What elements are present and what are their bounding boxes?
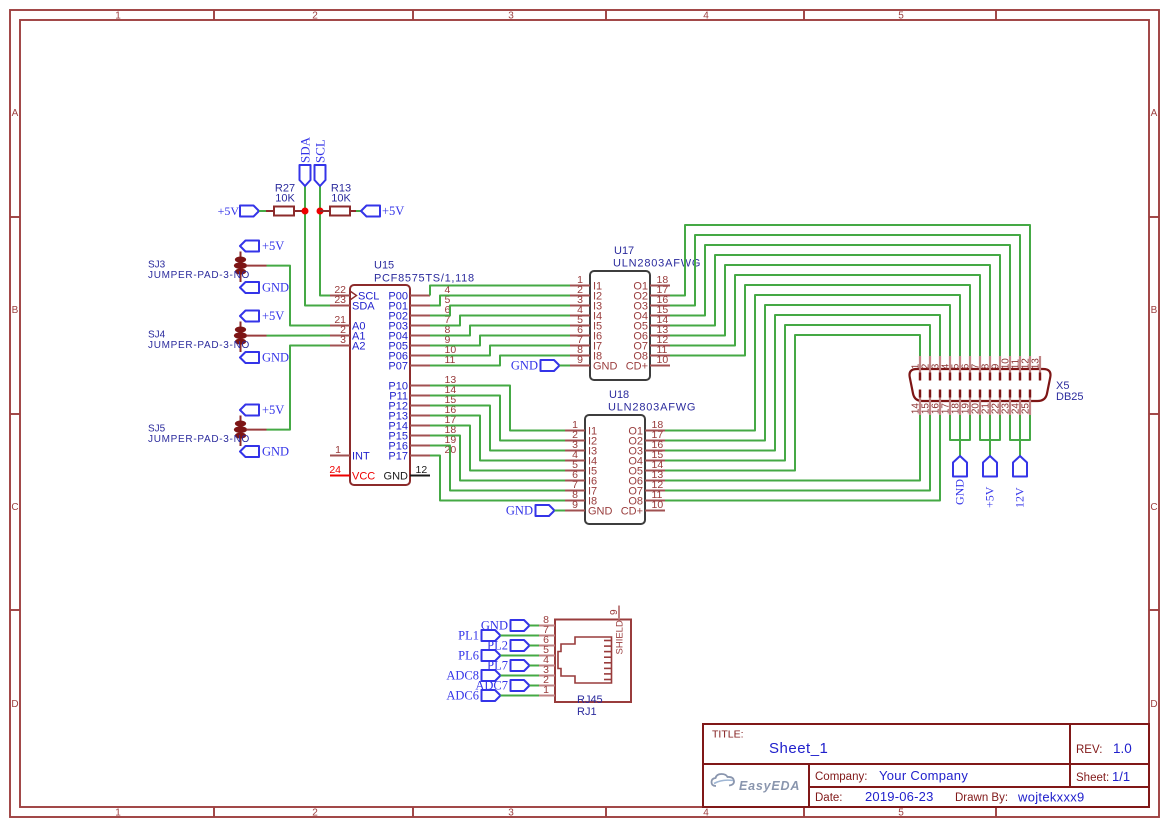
- wire U15 P14 to U18 I5: [430, 426, 565, 471]
- svg-text:1: 1: [543, 684, 549, 696]
- svg-text:SHIELD: SHIELD: [615, 620, 626, 654]
- U18 pin 7 (I7): [565, 479, 597, 498]
- svg-text:23: 23: [334, 294, 346, 306]
- svg-text:SJ4: SJ4: [148, 330, 166, 341]
- svg-text:SJ5: SJ5: [148, 424, 166, 435]
- net port GND of SJ4: [240, 351, 289, 365]
- wire U18 O8 to X5 pin 16: [665, 415, 940, 501]
- svg-text:B: B: [12, 305, 19, 316]
- svg-text:1: 1: [115, 808, 121, 819]
- wire X5 pins 17,18,19 to GND port: [950, 415, 970, 456]
- U15 pin 18 (P15): [388, 424, 456, 443]
- X5 bottom pin 14: [911, 390, 922, 416]
- svg-text:+5V: +5V: [262, 309, 284, 323]
- svg-text:12V: 12V: [1013, 487, 1027, 508]
- svg-text:RJ45: RJ45: [577, 694, 603, 706]
- wire PL6 port to RJ1 pin 5: [501, 655, 540, 657]
- wire U17 O8 to X5 pin 6: [670, 285, 970, 356]
- svg-text:Sheet_1: Sheet_1: [769, 740, 828, 757]
- X5 bottom pin 20: [971, 390, 982, 416]
- wire X5 pins 20,21,22 to +5V port: [980, 415, 1000, 456]
- svg-text:U15: U15: [374, 260, 394, 272]
- U17 pin 4 (I4): [570, 304, 602, 323]
- U18 pin 12 (O7): [628, 479, 665, 498]
- IC U17 body: [590, 271, 650, 380]
- net port GND: [481, 619, 530, 633]
- net port GND below X5: [953, 456, 968, 505]
- X5 top pin 12: [1021, 356, 1032, 381]
- U17 pin 10 (CD+): [626, 354, 670, 373]
- U17 pin 14 (O5): [633, 314, 670, 333]
- wire U15 P02 to U17 I3: [430, 306, 570, 316]
- net port ADC6: [446, 689, 500, 703]
- U17 pin 16 (O3): [633, 294, 670, 313]
- U15 pin 3 (A2): [330, 334, 365, 353]
- wire U15 P16 to U18 I7: [430, 446, 565, 491]
- net port +5V of SJ5: [240, 403, 284, 417]
- wire U15 P13 to U18 I4: [430, 416, 565, 461]
- X5 top pin 6: [961, 356, 972, 381]
- jumper pad SJ3: [234, 252, 267, 283]
- svg-text:4: 4: [703, 808, 709, 819]
- svg-text:ADC8: ADC8: [446, 669, 479, 683]
- net port GND of SJ3: [240, 281, 289, 295]
- svg-text:5: 5: [898, 11, 904, 22]
- svg-text:2019-06-23: 2019-06-23: [865, 789, 934, 804]
- net port +5V below X5: [983, 456, 998, 508]
- U17 pin 2 (I2): [570, 284, 602, 303]
- wire ADC7 port to RJ1 pin 2: [530, 685, 540, 687]
- svg-text:DB25: DB25: [1056, 391, 1084, 403]
- U15 pin 13 (P10): [388, 374, 456, 393]
- RJ1 pin 4: [539, 654, 555, 666]
- U17 pin 7 (I7): [570, 334, 602, 353]
- svg-text:+5V: +5V: [218, 204, 240, 218]
- svg-text:1: 1: [335, 444, 341, 456]
- svg-text:25: 25: [1021, 403, 1032, 415]
- net port +5V at R13: [361, 204, 404, 218]
- svg-text:Drawn By:: Drawn By:: [955, 792, 1008, 804]
- wire U15 P17 to U18 I8: [430, 456, 565, 501]
- svg-text:SJ3: SJ3: [148, 260, 166, 271]
- svg-text:JUMPER-PAD-3-NO: JUMPER-PAD-3-NO: [148, 434, 250, 445]
- U18 pin 17 (O2): [628, 429, 665, 448]
- U18 pin 18 (O1): [628, 419, 665, 438]
- svg-text:1: 1: [115, 11, 121, 22]
- svg-text:A: A: [1151, 108, 1158, 119]
- svg-text:3: 3: [508, 808, 514, 819]
- wire U17 O3 to X5 pin 11: [670, 235, 1020, 356]
- U15 pin 19 (P16): [388, 434, 456, 453]
- svg-text:10: 10: [652, 499, 664, 511]
- U17 pin 15 (O4): [633, 304, 670, 323]
- X5 top pin 4: [941, 356, 952, 381]
- junction on SDA net: [302, 208, 309, 215]
- X5 top pin 2: [921, 356, 932, 381]
- svg-text:C: C: [11, 502, 18, 513]
- svg-text:9: 9: [577, 354, 583, 366]
- wire U15 P00 to U17 I1: [430, 286, 570, 296]
- wire U18 O6 to X5 pin 14: [665, 415, 920, 481]
- net port +5V of SJ4: [240, 309, 284, 323]
- wire U17 O2 to X5 pin 12: [670, 225, 1030, 356]
- svg-text:+5V: +5V: [983, 486, 997, 508]
- svg-text:3: 3: [508, 11, 514, 22]
- RJ1 pin 1: [539, 684, 555, 696]
- U18 pin 10 (CD+): [621, 499, 665, 518]
- svg-text:+5V: +5V: [382, 204, 404, 218]
- svg-text:GND: GND: [262, 281, 289, 295]
- X5 top pin 5: [951, 356, 962, 381]
- net port 12V below X5: [1013, 456, 1028, 508]
- wire R13 to +5V port: [356, 210, 361, 212]
- wire SJ5 to U15 pin A2: [267, 346, 331, 430]
- U17 pin 8 (I8): [570, 344, 602, 363]
- svg-text:U18: U18: [609, 389, 629, 401]
- X5 top pin 13: [1031, 356, 1042, 381]
- svg-text:SCL: SCL: [313, 139, 328, 163]
- svg-text:1.0: 1.0: [1113, 741, 1132, 756]
- svg-text:PL6: PL6: [458, 649, 479, 663]
- IC U15 body: [350, 285, 410, 485]
- wire U18 O7 to X5 pin 15: [665, 415, 930, 491]
- wire SJ3 to U15 pin A0: [267, 266, 331, 326]
- wire U17 O5 to X5 pin 9: [670, 255, 1000, 356]
- junction on SCL net: [317, 208, 324, 215]
- U15 pin 12 (GND): [384, 464, 430, 483]
- X5 bottom pin 18: [951, 390, 962, 416]
- U18 pin 16 (O3): [628, 439, 665, 458]
- X5 bottom pin 17: [941, 390, 952, 416]
- svg-text:PCF8575TS/1,118: PCF8575TS/1,118: [374, 273, 475, 285]
- X5 top pin 3: [931, 356, 942, 381]
- net port SDA: [298, 136, 313, 186]
- U15 pin 4 (P00): [388, 284, 450, 303]
- X5 bottom pin 24: [1011, 390, 1022, 416]
- wire U15 P01 to U17 I2: [430, 296, 570, 306]
- U18 pin 4 (I4): [565, 449, 597, 468]
- X5 top pin 10: [1001, 356, 1012, 381]
- svg-text:A: A: [12, 108, 19, 119]
- svg-text:GND: GND: [384, 471, 409, 483]
- U18 pin 15 (O4): [628, 449, 665, 468]
- wire U15 P03 to U17 I4: [430, 316, 570, 326]
- wire U18 O5 to X5 pin 1: [665, 335, 920, 471]
- U18 pin 3 (I3): [565, 439, 597, 458]
- U15 pin 23 (SDA): [330, 294, 375, 313]
- svg-text:GND: GND: [262, 351, 289, 365]
- U18 pin 11 (O8): [628, 489, 665, 508]
- svg-text:Company:: Company:: [815, 771, 867, 783]
- svg-text:ADC6: ADC6: [446, 689, 479, 703]
- svg-text:CD+: CD+: [621, 506, 643, 518]
- jumper pad SJ4: [234, 322, 267, 353]
- wire SCL vertical to U15 pin 22: [320, 186, 330, 296]
- wire PL7 port to RJ1 pin 4: [530, 665, 540, 667]
- X5 top pin 8: [981, 356, 992, 381]
- RJ1 pin 8: [539, 614, 555, 626]
- wire U17 O7 to X5 pin 7: [670, 275, 980, 356]
- wire X5 pins 23,24,25 to 12V port: [1010, 415, 1030, 456]
- U18 pin 2 (I2): [565, 429, 597, 448]
- svg-text:PL1: PL1: [458, 629, 479, 643]
- svg-text:RJ1: RJ1: [577, 706, 597, 718]
- net port ADC8: [446, 669, 500, 683]
- svg-text:P07: P07: [388, 361, 408, 373]
- U15 pin 2 (A1): [330, 324, 365, 343]
- svg-text:ULN2803AFWG: ULN2803AFWG: [608, 402, 696, 414]
- connector RJ1 body: [555, 620, 631, 703]
- X5 top pin 7: [971, 356, 982, 381]
- svg-text:TITLE:: TITLE:: [712, 729, 744, 741]
- svg-text:wojtekxxx9: wojtekxxx9: [1017, 790, 1085, 805]
- wire U15 P12 to U18 I3: [430, 406, 565, 451]
- net port PL7: [487, 659, 529, 673]
- net port GND at U18 pin 9: [506, 504, 555, 518]
- svg-text:U17: U17: [614, 245, 634, 257]
- net port ADC7: [475, 679, 529, 693]
- svg-text:1/1: 1/1: [1112, 769, 1130, 784]
- wire U15 P06 to U17 I7: [430, 346, 570, 356]
- jumper pad SJ5: [234, 416, 267, 447]
- wire ADC8 port to RJ1 pin 3: [501, 675, 540, 677]
- svg-text:GND: GND: [953, 479, 967, 505]
- wire SJ4 to U15 pin A1: [267, 335, 331, 337]
- RJ1 pin 5: [539, 644, 555, 656]
- U15 pin 16 (P13): [388, 404, 456, 423]
- svg-text:ULN2803AFWG: ULN2803AFWG: [613, 258, 701, 270]
- wire U15 P10 to U18 I1: [430, 386, 565, 431]
- svg-text:2: 2: [312, 11, 318, 22]
- U18 pin 1 (I1): [565, 419, 597, 438]
- wire SDA vertical to U15 pin 23: [305, 186, 330, 306]
- wire U15 P15 to U18 I6: [430, 436, 565, 481]
- svg-text:JUMPER-PAD-3-NO: JUMPER-PAD-3-NO: [148, 270, 250, 281]
- net port PL6: [458, 649, 500, 663]
- svg-text:GND: GND: [593, 361, 618, 373]
- svg-text:REV:: REV:: [1076, 744, 1102, 756]
- net port +5V at R27: [218, 204, 259, 218]
- wire U15 P11 to U18 I2: [430, 396, 565, 441]
- wire GND port to U17 pin 9: [560, 365, 571, 367]
- wire PL2 port to RJ1 pin 6: [530, 645, 540, 647]
- X5 bottom pin 19: [961, 390, 972, 416]
- X5 bottom pin 21: [981, 390, 992, 416]
- U17 pin 11 (O8): [633, 344, 670, 363]
- svg-text:10: 10: [657, 354, 669, 366]
- RJ1 pin 3: [539, 664, 555, 676]
- wire PL1 port to RJ1 pin 7: [501, 635, 540, 637]
- RJ1 pin 2: [539, 674, 555, 686]
- U18 pin 5 (I5): [565, 459, 597, 478]
- svg-text:VCC: VCC: [352, 471, 375, 483]
- svg-text:2: 2: [312, 808, 318, 819]
- svg-text:4: 4: [703, 11, 709, 22]
- U15 pin 14 (P11): [389, 384, 456, 403]
- EasyEDA logo: [712, 774, 801, 793]
- RJ1 pin 7: [539, 624, 555, 636]
- svg-text:INT: INT: [352, 451, 370, 463]
- U17 pin 13 (O6): [633, 324, 670, 343]
- U15 pin 8 (P04): [388, 324, 450, 343]
- svg-text:P17: P17: [388, 451, 408, 463]
- net port PL1: [458, 629, 500, 643]
- svg-text:+5V: +5V: [262, 239, 284, 253]
- X5 top pin 11: [1011, 356, 1022, 381]
- wire GND port to RJ1 pin 8: [530, 625, 540, 627]
- U15 pin 5 (P01): [388, 294, 450, 313]
- U17 pin 3 (I3): [570, 294, 602, 313]
- RJ1 pin 6: [539, 634, 555, 646]
- U18 pin 9 (GND): [565, 499, 613, 518]
- net port GND at U17 pin 9: [511, 359, 560, 373]
- svg-text:GND: GND: [262, 445, 289, 459]
- svg-text:JUMPER-PAD-3-NO: JUMPER-PAD-3-NO: [148, 340, 250, 351]
- IC U18 body: [585, 415, 645, 524]
- U15 pin 20 (P17): [388, 444, 456, 463]
- U17 pin 9 (GND): [570, 354, 618, 373]
- net port GND of SJ5: [240, 445, 289, 459]
- svg-text:SDA: SDA: [352, 301, 375, 313]
- wire U15 P04 to U17 I5: [430, 326, 570, 336]
- svg-text:9: 9: [572, 499, 578, 511]
- U18 pin 6 (I6): [565, 469, 597, 488]
- net port PL2: [487, 639, 529, 653]
- svg-text:EasyEDA: EasyEDA: [739, 779, 800, 793]
- wire U18 O3 to X5 pin 3: [665, 315, 940, 451]
- wire GND port to U18 pin 9: [555, 510, 566, 512]
- wire U18 O1 to X5 pin 5: [665, 295, 960, 431]
- wire U17 O4 to X5 pin 10: [670, 245, 1010, 356]
- svg-text:C: C: [1150, 502, 1157, 513]
- U15 pin 10 (P06): [388, 344, 456, 363]
- svg-text:GND: GND: [506, 504, 533, 518]
- svg-text:D: D: [1150, 699, 1157, 710]
- connector X5 body (DB25): [910, 369, 1051, 401]
- wire U18 O4 to X5 pin 2: [665, 325, 930, 461]
- U15 pin 17 (P14): [388, 414, 456, 433]
- X5 bottom pin 22: [991, 390, 1002, 416]
- X5 bottom pin 15: [921, 390, 932, 416]
- U18 pin 14 (O5): [628, 459, 665, 478]
- svg-text:Sheet:: Sheet:: [1076, 772, 1109, 784]
- wire U15 P07 to U17 I8: [430, 356, 570, 366]
- resistor R27: [266, 207, 305, 216]
- svg-text:B: B: [1151, 305, 1158, 316]
- svg-text:5: 5: [898, 808, 904, 819]
- X5 bottom pin 25: [1021, 390, 1032, 416]
- U15 pin 9 (P05): [388, 334, 450, 353]
- U17 pin 1 (I1): [570, 274, 602, 293]
- title block: [703, 724, 1149, 807]
- svg-text:GND: GND: [511, 359, 538, 373]
- U18 pin 13 (O6): [628, 469, 665, 488]
- svg-text:Date:: Date:: [815, 792, 843, 804]
- U15 pin 6 (P02): [388, 304, 450, 323]
- svg-text:13: 13: [1031, 358, 1042, 370]
- svg-text:3: 3: [340, 334, 346, 346]
- X5 top pin 1: [911, 356, 922, 381]
- svg-text:A2: A2: [352, 341, 365, 353]
- net port SCL: [313, 139, 328, 186]
- svg-text:SDA: SDA: [298, 136, 313, 163]
- svg-text:+5V: +5V: [262, 403, 284, 417]
- U17 pin 18 (O1): [633, 274, 670, 293]
- svg-text:24: 24: [329, 464, 341, 476]
- resistor R13: [320, 207, 356, 216]
- svg-text:GND: GND: [588, 506, 613, 518]
- svg-text:D: D: [11, 699, 18, 710]
- U17 pin 17 (O2): [633, 284, 670, 303]
- X5 top pin 9: [991, 356, 1002, 381]
- U17 pin 12 (O7): [633, 334, 670, 353]
- U15 pin 1 (INT): [330, 444, 370, 463]
- svg-text:10K: 10K: [275, 193, 295, 205]
- net port +5V of SJ3: [240, 239, 284, 253]
- wire U15 P05 to U17 I6: [430, 336, 570, 346]
- U15 pin 11 (P07): [388, 354, 455, 373]
- U17 pin 6 (I6): [570, 324, 602, 343]
- svg-text:CD+: CD+: [626, 361, 648, 373]
- wire +5V port to R27: [259, 210, 266, 212]
- U15 pin 21 (A0): [330, 314, 365, 333]
- U17 pin 5 (I5): [570, 314, 602, 333]
- U15 pin 22 (SCL): [330, 284, 379, 303]
- wire U17 O6 to X5 pin 8: [670, 265, 990, 356]
- U15 pin 24 (VCC): [329, 464, 375, 483]
- svg-text:9: 9: [609, 609, 620, 615]
- wire U18 O2 to X5 pin 4: [665, 305, 950, 441]
- U15 pin 7 (P03): [388, 314, 450, 333]
- X5 bottom pin 16: [931, 390, 942, 416]
- RJ45 jack symbol: [558, 637, 612, 683]
- X5 bottom pin 23: [1001, 390, 1012, 416]
- wire ADC6 port to RJ1 pin 1: [501, 695, 540, 697]
- svg-text:12: 12: [416, 464, 428, 476]
- U15 pin 15 (P12): [388, 394, 456, 413]
- U18 pin 8 (I8): [565, 489, 597, 508]
- RJ1 pin 9 (SHIELD): [609, 606, 620, 620]
- svg-text:Your Company: Your Company: [879, 768, 968, 783]
- svg-text:10K: 10K: [331, 193, 351, 205]
